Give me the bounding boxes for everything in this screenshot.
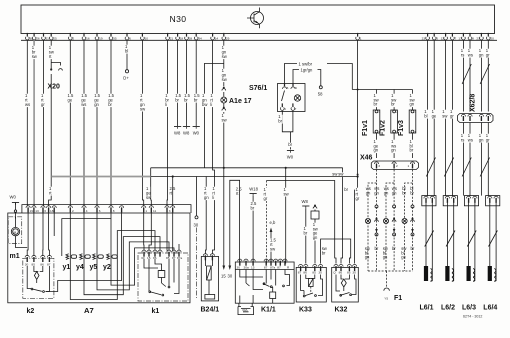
svg-text:X46: X46: [360, 155, 373, 162]
fuse F1v3: [398, 90, 417, 159]
svg-text:3: 3: [169, 209, 171, 213]
svg-text:F1v3: F1v3: [398, 120, 405, 136]
pair wires to X62/8 left: [460, 40, 473, 111]
svg-text:62T4 - 3012: 62T4 - 3012: [463, 315, 482, 319]
solenoid valve y5: [90, 212, 104, 271]
svg-text:br: br: [411, 246, 415, 251]
speed sensor L6/1: [420, 196, 437, 312]
solenoid valve y2: [103, 212, 117, 271]
wire pin11: 1 rt gr: [41, 40, 46, 206]
branch y180.5: K1/1 and K32 feed: [263, 168, 336, 264]
svg-text:6: 6: [129, 37, 131, 41]
wear indicator lamps on left branches: [365, 218, 407, 223]
svg-text:87a: 87a: [270, 265, 275, 269]
svg-text:35: 35: [113, 37, 117, 41]
wire pin16: 1.5 ge ws: [81, 40, 88, 206]
switch unit S76/1 box: [249, 84, 305, 112]
svg-text:y1: y1: [63, 264, 71, 271]
wire pin14: 1 rt li to B24/1: [210, 40, 215, 176]
svg-text:W8: W8: [183, 131, 190, 136]
svg-text:5: 5: [295, 86, 297, 90]
svg-text:2: 2: [379, 110, 381, 114]
svg-text:4: 4: [284, 107, 286, 111]
svg-text:16: 16: [86, 37, 90, 41]
speed sensor L6/2: [441, 196, 457, 312]
svg-text:6: 6: [99, 209, 101, 213]
e,b feed arrow into K1/1: [269, 220, 276, 264]
svg-text:87a: 87a: [177, 256, 182, 260]
relay k1: [138, 250, 188, 315]
ground W0 into A7 motor: [9, 195, 19, 219]
svg-text:Y5: Y5: [384, 297, 388, 301]
connector strip X62/8: [458, 94, 493, 123]
svg-text:L6/1: L6/1: [420, 305, 434, 312]
svg-text:30: 30: [228, 274, 233, 279]
svg-text:8: 8: [472, 37, 474, 41]
svg-text:13: 13: [35, 209, 39, 213]
wire pin1 vertical feed: [357, 40, 359, 175]
svg-text:25: 25: [53, 37, 57, 41]
svg-text:wsgn: wsgn: [384, 186, 389, 195]
sensor B24/1: [201, 254, 220, 314]
right sensor pair wires L6/1: [424, 40, 437, 195]
svg-text:k1: k1: [152, 308, 160, 315]
svg-text:1: 1: [408, 164, 410, 168]
S76/1 top wire 1gr/gn to terminal 58: [293, 67, 323, 96]
svg-text:10: 10: [145, 37, 149, 41]
fuse feed bus y89.5: [352, 89, 412, 91]
relay K1/1: [235, 259, 294, 313]
wire pin35: 1.5 ge br: [108, 40, 115, 206]
svg-text:15: 15: [251, 265, 255, 269]
terminal 30 arrow bridge to K1/1: [227, 180, 242, 278]
svg-text:D+: D+: [123, 76, 129, 81]
wire pin19: 1.5 ge gn: [94, 40, 101, 206]
wire pin30 left: 1 rt ws: [25, 40, 31, 206]
svg-text:wsgn: wsgn: [374, 186, 379, 195]
K33-K32 link wire y239: [321, 239, 351, 264]
wire pin2: 1.5 ge: [67, 40, 74, 206]
svg-text:11: 11: [153, 209, 156, 213]
svg-text:y5: y5: [90, 264, 98, 271]
svg-text:W0: W0: [10, 195, 17, 200]
svg-text:2: 2: [72, 37, 74, 41]
pair 3 split: [405, 170, 413, 272]
svg-text:30: 30: [194, 223, 199, 228]
svg-text:87: 87: [298, 271, 302, 275]
svg-text:20: 20: [490, 37, 494, 41]
svg-text:87: 87: [277, 265, 281, 269]
relay K32: [332, 265, 359, 314]
right sensor pair wires L6/2: [442, 40, 454, 195]
svg-text:K1/1: K1/1: [261, 307, 276, 314]
svg-text:br: br: [392, 246, 396, 251]
fuse F1v1: [362, 90, 381, 159]
svg-text:19: 19: [99, 37, 103, 41]
svg-text:S76/1: S76/1: [249, 85, 267, 92]
svg-text:m1: m1: [10, 253, 20, 260]
svg-text:2: 2: [396, 110, 398, 114]
bus sw-net y167.5: [146, 167, 349, 264]
S76/1 ground wire 1 br to W0: [278, 111, 294, 160]
svg-text:A7: A7: [84, 306, 94, 315]
svg-text:L6/3: L6/3: [462, 305, 476, 312]
svg-text:F1: F1: [394, 295, 402, 302]
fuse 30A under K1/1: [238, 303, 254, 314]
svg-text:86: 86: [40, 263, 44, 267]
svg-text:W0: W0: [287, 155, 294, 160]
svg-text:5: 5: [436, 37, 438, 41]
svg-text:58: 58: [318, 92, 323, 97]
svg-text:X62/8: X62/8: [470, 94, 477, 112]
control unit N30 box: [21, 5, 495, 34]
svg-text:2: 2: [72, 209, 74, 213]
svg-text:y4: y4: [76, 264, 84, 271]
svg-text:k2: k2: [27, 308, 35, 315]
wire pin29: 1 gn sw to lamp A1e17 then terminal 15 arrow: [202, 40, 252, 264]
pair labels bottom: [365, 246, 415, 260]
A7 wires from cups down to k2: [27, 212, 54, 256]
svg-text:B24/1: B24/1: [201, 307, 220, 314]
svg-text:86: 86: [339, 271, 343, 275]
connector strip line under N30: [21, 39, 497, 41]
svg-text:W8: W8: [302, 199, 309, 204]
fuse F1v2: [380, 90, 399, 159]
svg-text:M: M: [14, 230, 17, 234]
wires X62/8 to L6/3 L6/4: [460, 123, 490, 196]
svg-text:30: 30: [318, 271, 322, 275]
svg-text:wsgn: wsgn: [392, 186, 397, 195]
svg-text:W8: W8: [174, 131, 181, 136]
pair wires to X62/8 right: [478, 40, 490, 111]
svg-text:14: 14: [215, 37, 219, 41]
grey bus drop 2.5 rt into A7: [172, 177, 174, 207]
svg-text:L6/4: L6/4: [483, 305, 497, 312]
svg-text:K33: K33: [299, 307, 312, 314]
svg-text:85: 85: [32, 263, 36, 267]
svg-text:30a: 30a: [244, 265, 249, 269]
svg-text:23: 23: [422, 37, 426, 41]
solenoid valve y4: [76, 212, 90, 271]
svg-text:K32: K32: [335, 307, 348, 314]
svg-text:1: 1: [145, 209, 147, 213]
svg-text:wsgn: wsgn: [366, 186, 371, 195]
svg-text:4: 4: [86, 209, 88, 213]
svg-text:7: 7: [455, 37, 457, 41]
svg-text:br: br: [375, 246, 379, 251]
A7 top connector cups: [26, 206, 175, 213]
pair labels top: [366, 186, 415, 195]
internal harness nest A7: [46, 212, 180, 299]
svg-text:30: 30: [352, 271, 356, 275]
wire pin26: 1 br sw (thick grey): [31, 40, 37, 206]
svg-text:30: 30: [25, 263, 29, 267]
wire pin6: 1 bl to D+: [123, 40, 129, 80]
ground W18 wire to K1/1: [249, 187, 259, 263]
svg-text:18: 18: [50, 209, 54, 213]
svg-text:br: br: [288, 142, 292, 147]
svg-text:34: 34: [198, 37, 202, 41]
svg-text:86: 86: [303, 271, 307, 275]
pair 1 split: [368, 170, 377, 272]
svg-text:y2: y2: [103, 264, 111, 271]
svg-text:11: 11: [46, 37, 49, 41]
svg-text:L6/2: L6/2: [441, 305, 455, 312]
wire pin25: 1 sw rt with X20 connector: [48, 40, 63, 206]
svg-text:br: br: [344, 187, 348, 192]
lower twist marks under L6 connectors: [425, 231, 498, 247]
svg-text:18: 18: [180, 37, 184, 41]
svg-text:2: 2: [396, 164, 398, 168]
pump symbol inside N30: [247, 8, 264, 29]
connector chains on right branches: [375, 205, 415, 236]
bus 30-net grey y183: [51, 177, 199, 300]
wire pin10: 1 rt gn sw: [140, 40, 146, 206]
svg-text:2: 2: [415, 110, 417, 114]
svg-text:F1v2: F1v2: [380, 120, 387, 136]
svg-text:3: 3: [378, 164, 380, 168]
svg-text:15: 15: [221, 274, 226, 279]
F1 dashed harness column below X46: [368, 170, 413, 272]
hydraulic unit A7 box: [8, 213, 190, 315]
svg-text:8: 8: [113, 209, 115, 213]
connector strip X46: [360, 155, 418, 170]
A7 wires from cups down to k1: [144, 212, 173, 251]
svg-text:e,b: e,b: [270, 220, 276, 225]
svg-text:1: 1: [360, 37, 362, 41]
speed sensor L6/4: [483, 196, 500, 312]
ground W8 wire to K33: [301, 199, 309, 264]
svg-text:12: 12: [441, 37, 445, 41]
svg-text:21: 21: [476, 37, 480, 41]
wires pins 18/28/34: 1.5 br to grounds W8 W8 W0: [174, 40, 201, 135]
svg-text:1: 1: [415, 130, 417, 134]
svg-text:17: 17: [458, 37, 462, 41]
svg-text:30: 30: [237, 265, 241, 269]
svg-text:1gr/gn: 1gr/gn: [301, 67, 314, 72]
A1e17 wire continues to terminal 15 arrow: [221, 264, 227, 279]
A7 connector strip bar: [22, 205, 191, 213]
svg-text:29: 29: [226, 37, 230, 41]
speed sensor L6/3: [462, 196, 479, 312]
svg-text:W18: W18: [249, 187, 258, 192]
svg-text:19: 19: [30, 209, 34, 213]
svg-text:6: 6: [44, 209, 46, 213]
pair 2 split: [386, 170, 394, 272]
relay K33: [296, 265, 326, 314]
svg-text:N30: N30: [170, 14, 187, 24]
diode unit above K33: [311, 205, 319, 264]
svg-text:7: 7: [295, 107, 297, 111]
svg-text:1 sw/br: 1 sw/br: [299, 61, 313, 66]
B24/1 feed legs from bus: [204, 177, 207, 255]
svg-text:21: 21: [170, 37, 174, 41]
svg-text:26: 26: [36, 37, 40, 41]
wire pin21: 1 br li: [165, 40, 176, 206]
svg-text:85: 85: [312, 271, 316, 275]
svg-text:W0: W0: [193, 131, 200, 136]
svg-text:6: 6: [287, 86, 289, 90]
bus rt-gr net y175.9: [151, 175, 360, 263]
relay k2: [23, 255, 54, 315]
pump motor m1: [8, 217, 27, 260]
F1 collector bus and connector: [368, 271, 413, 302]
svg-text:X20: X20: [48, 84, 61, 91]
svg-text:A1e 17: A1e 17: [229, 98, 252, 105]
S76/1 top wire 1sw/br to fuse feed: [285, 61, 353, 89]
svg-text:F1v1: F1v1: [362, 120, 369, 136]
svg-text:87: 87: [47, 263, 51, 267]
svg-text:28: 28: [189, 37, 193, 41]
svg-text:87: 87: [264, 265, 268, 269]
N30 pin sockets row: [26, 33, 495, 41]
svg-text:85: 85: [347, 271, 351, 275]
solenoid valve y1: [63, 212, 77, 271]
